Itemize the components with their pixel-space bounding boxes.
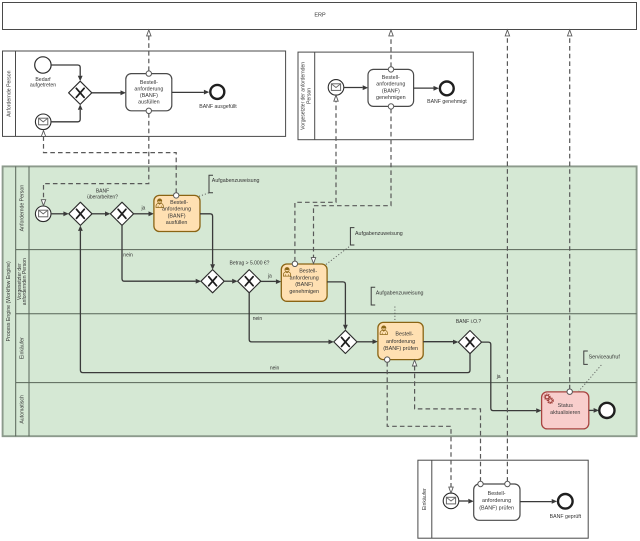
svg-text:ja: ja — [496, 374, 501, 380]
pool Einkäufer (unten) — [418, 460, 588, 538]
flow Betrag nein down to gateway lane3 — [249, 293, 334, 345]
message start event (Einkaeufer unten) — [443, 493, 459, 509]
svg-text:nein: nein — [123, 252, 133, 258]
svg-text:Automatisch: Automatisch — [19, 395, 25, 424]
svg-text:Serviceaufruf: Serviceaufruf — [589, 354, 621, 360]
annotation Aufgabenzuweisung 2 — [326, 228, 403, 265]
svg-text:ja: ja — [267, 273, 272, 279]
svg-text:anfordernden Person: anfordernden Person — [22, 258, 28, 305]
flow task genehmigen to gateway lane3 — [327, 282, 348, 330]
svg-text:Bestell-: Bestell- — [382, 75, 400, 81]
flow ueberarbeiten ja to task — [134, 211, 154, 216]
pool Vorgesetzter der anfordernden Person (oben) — [298, 52, 473, 140]
lane label Vorgesetzter der anfordernden Person — [17, 258, 28, 305]
message flow Status aktualisieren to ERP — [567, 30, 572, 395]
svg-text:Bestell-: Bestell- — [170, 200, 188, 206]
svg-text:BANF genehmigt: BANF genehmigt — [427, 99, 467, 105]
gateway X (oben links) — [69, 81, 92, 104]
flow message event to gateway — [51, 104, 83, 121]
user task Bestellanforderung (BANF) pruefen (gruen) — [378, 322, 423, 359]
flow merge to task pruefen — [357, 339, 378, 344]
lane border Einkäufer / Automatisch — [16, 382, 637, 384]
svg-text:anforderung: anforderung — [482, 498, 511, 504]
svg-text:Anfordernde Person: Anfordernde Person — [19, 185, 25, 232]
svg-text:nein: nein — [270, 365, 280, 371]
svg-text:BANF geprüft: BANF geprüft — [550, 514, 582, 520]
svg-text:(BANF): (BANF) — [295, 282, 313, 288]
lane border Vorgesetzter / Einkäufer — [16, 313, 637, 315]
flow BANF iO ja to Status task — [482, 342, 542, 413]
svg-text:(BANF) prüfen: (BANF) prüfen — [479, 505, 514, 511]
svg-text:(BANF) prüfen: (BANF) prüfen — [383, 346, 418, 352]
service task Status aktualisieren — [542, 392, 589, 429]
flow Betrag ja to task genehmigen — [261, 279, 282, 284]
svg-text:Aufgabenzuweisung: Aufgabenzuweisung — [376, 290, 424, 296]
message flow task genehmigen (oben) to ERP — [388, 30, 393, 72]
message flow task ausfuellen (oben) to start event (Process Engine) — [41, 108, 151, 206]
svg-text:anforderung: anforderung — [134, 86, 163, 92]
svg-text:anforderung: anforderung — [376, 82, 405, 88]
pool Process Engine (Workflow Engine) — [3, 166, 637, 436]
flow merge to Betrag gateway — [224, 279, 237, 284]
flow start to task pruefen (unten) — [459, 499, 474, 504]
svg-text:genehmigen: genehmigen — [289, 289, 319, 295]
message flow task pruefen (unten) to task pruefen (gruen) — [412, 360, 483, 487]
annotation Aufgabenzuweisung 1 — [199, 175, 260, 196]
svg-text:(BANF): (BANF) — [382, 88, 400, 94]
svg-text:anforderung: anforderung — [386, 339, 415, 345]
gateway merge (lane 2) — [201, 270, 224, 293]
svg-text:ausfüllen: ausfüllen — [166, 220, 188, 226]
end event BANF geprueft — [558, 494, 573, 509]
message flow task genehmigen (oben) to task genehmigen (gruen) — [311, 104, 393, 264]
flow BANF iO nein return to lane1 merge — [78, 226, 470, 373]
svg-text:Betrag > 5.000 €?: Betrag > 5.000 €? — [230, 260, 270, 266]
svg-text:Einkäufer: Einkäufer — [19, 337, 25, 359]
flow message event to task genehmigen — [344, 85, 368, 90]
svg-text:Person: Person — [307, 88, 313, 104]
message flow task genehmigen (gruen) to start event (Vorgesetzter) — [292, 95, 338, 266]
svg-text:Einkäufer: Einkäufer — [422, 488, 428, 510]
annotation Aufgabenzuweisung 3 — [371, 287, 423, 322]
svg-text:überarbeiten?: überarbeiten? — [87, 194, 118, 200]
svg-text:Process Engine (Workflow Engin: Process Engine (Workflow Engine) — [6, 261, 12, 341]
svg-text:genehmigen: genehmigen — [376, 95, 406, 101]
svg-text:BANF i.O.?: BANF i.O.? — [456, 319, 482, 325]
message start event (Process Engine) — [35, 206, 51, 222]
gateway merge (lane 1) — [69, 202, 92, 225]
svg-text:Vorgesetzter der anfordernden: Vorgesetzter der anfordernden — [300, 62, 306, 130]
pool Anfordernde Person (oben) — [3, 51, 286, 136]
message flow task ausfuellen (gruen) to message event (oben links) — [41, 131, 179, 199]
gateway merge (lane 3) — [334, 330, 357, 353]
flow task genehmigen to end event — [414, 86, 439, 91]
user task Bestellanforderung (BANF) genehmigen (gruen) — [281, 264, 327, 301]
flow task pruefen to gateway BANF iO — [423, 340, 458, 345]
svg-text:Bestell-: Bestell- — [299, 269, 317, 275]
gateway BANF ueberarbeiten (lane 1) — [110, 202, 133, 225]
flow task to end event — [172, 90, 209, 95]
svg-text:Status: Status — [558, 403, 574, 409]
svg-text:aufgetreten: aufgetreten — [30, 83, 56, 89]
annotation Serviceaufruf — [579, 351, 621, 391]
end event BANF ausgefuellt — [210, 85, 224, 99]
gateway BANF i.O. (lane 3) — [458, 331, 481, 354]
flow task ausfuellen to gateway lane2 — [200, 214, 215, 270]
pool ERP — [3, 3, 637, 30]
svg-text:ja: ja — [140, 206, 145, 212]
svg-text:Aufgabenzuweisung: Aufgabenzuweisung — [212, 178, 260, 184]
svg-text:Anfordernde Person: Anfordernde Person — [6, 70, 12, 117]
svg-text:BANF ausgefüllt: BANF ausgefüllt — [199, 104, 237, 110]
task Bestellanforderung (BANF) ausfuellen (oben) — [126, 74, 172, 111]
flow ueberarbeiten nein down to gateway lane2 — [122, 225, 201, 283]
flow merge to ueberarbeiten gateway — [92, 211, 110, 216]
svg-text:Bestell-: Bestell- — [395, 332, 413, 338]
flow gateway to task BANF ausfuellen — [92, 90, 126, 95]
message start event (Vorgesetzter) — [328, 80, 344, 96]
svg-text:nein: nein — [253, 316, 263, 322]
start event Bedarf aufgetreten — [35, 57, 51, 73]
svg-text:Bestell-: Bestell- — [140, 80, 158, 86]
svg-text:anforderung: anforderung — [290, 275, 319, 281]
flow Status to end event — [589, 408, 599, 413]
end event (Automatisch) — [599, 403, 614, 418]
message flow task pruefen (gruen) to start event (Einkaeufer unten) — [385, 357, 454, 493]
svg-text:(BANF): (BANF) — [140, 93, 158, 99]
svg-text:aktualisieren: aktualisieren — [550, 410, 580, 416]
message flow task ausfuellen (oben) to ERP — [146, 30, 151, 76]
flow start to gateway — [51, 65, 83, 81]
svg-text:ausfüllen: ausfüllen — [138, 100, 160, 106]
flow task pruefen to end event (unten) — [520, 499, 557, 504]
svg-text:Bestell-: Bestell- — [488, 491, 506, 497]
end event BANF genehmigt — [440, 82, 454, 96]
message flow task pruefen (unten) to ERP — [505, 30, 510, 487]
user task Bestellanforderung (BANF) ausfuellen (gruen) — [154, 195, 200, 231]
svg-text:(BANF): (BANF) — [168, 213, 186, 219]
svg-text:Aufgabenzuweisung: Aufgabenzuweisung — [355, 231, 403, 237]
flow start to merge gateway — [51, 211, 69, 216]
gateway Betrag 5000 (lane 2) — [238, 270, 261, 293]
task Bestellanforderung (BANF) genehmigen (oben) — [368, 69, 414, 106]
message event (oben links) — [35, 114, 51, 130]
task Bestellanforderung (BANF) pruefen (unten) — [474, 484, 520, 520]
lane border Anfordernde Person / Vorgesetzter — [16, 249, 637, 251]
svg-text:ERP: ERP — [314, 13, 326, 19]
svg-text:anforderung: anforderung — [162, 207, 191, 213]
